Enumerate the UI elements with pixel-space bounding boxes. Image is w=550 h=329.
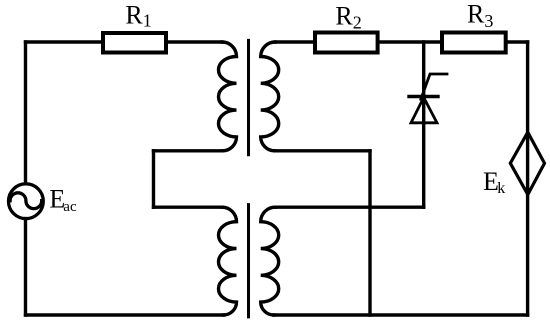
wire jog horizontal to bottom-left winding	[154, 205, 223, 208]
transformer T2 secondary winding (bottom-right coil)	[261, 207, 279, 315]
wire bottom from winding to left corner	[26, 313, 224, 316]
resistor R3	[442, 33, 506, 53]
transformer T1 primary winding (top-left coil)	[219, 42, 237, 151]
AC source Eac circle	[9, 184, 44, 219]
transformer T1 core	[247, 40, 250, 154]
wire right vertical	[526, 42, 529, 315]
wire R1 to transformer top-left winding	[167, 40, 222, 43]
wire bottom-right winding bottom lead along bottom to right corner	[274, 313, 528, 316]
wire left vertical top segment	[24, 42, 27, 184]
resistor R2	[315, 33, 378, 53]
wire R3 to top-right corner	[506, 40, 528, 43]
wire R2 to R3	[379, 40, 441, 43]
zener diode VD1 cathode bar	[409, 95, 438, 98]
zener diode VD1 triangle	[411, 98, 437, 123]
transformer T2 core	[247, 205, 250, 317]
wire jog vertical	[152, 151, 155, 207]
wire top-left winding bottom lead to jog	[154, 149, 223, 152]
wire top-right winding bottom lead to vertical	[275, 149, 370, 152]
wire top-left from corner to R1	[26, 40, 103, 43]
AC source Eac sine symbol	[10, 193, 42, 209]
wire bottom-right winding top lead to zener node	[275, 205, 424, 208]
wire left vertical bottom segment	[24, 219, 27, 315]
transformer T2 primary winding (bottom-left coil)	[218, 207, 236, 315]
transformer T1 secondary winding (top-right coil)	[261, 42, 279, 151]
wire top-right winding top lead to R2	[275, 40, 315, 43]
zener diode VD1 cathode tail	[421, 74, 447, 99]
wire vertical from winding node down to bottom wire	[368, 151, 371, 315]
zener diode VD1 vertical lead	[422, 42, 425, 207]
resistor R1	[103, 33, 166, 53]
source Ek diamond	[510, 132, 544, 194]
